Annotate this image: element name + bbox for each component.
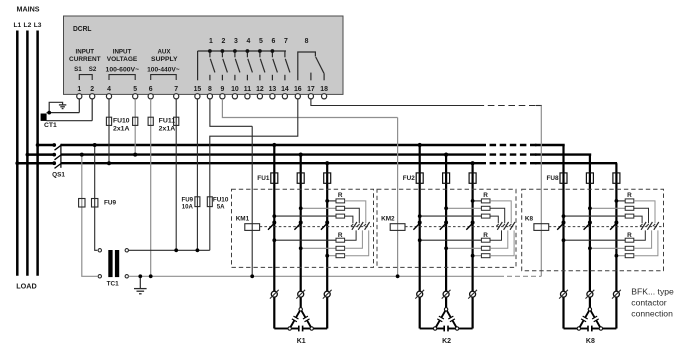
svg-text:16: 16 (294, 86, 302, 93)
svg-text:INPUT: INPUT (113, 48, 132, 55)
svg-text:L2: L2 (24, 22, 32, 29)
svg-text:R: R (627, 192, 632, 199)
svg-text:connection: connection (631, 308, 673, 318)
svg-text:K8: K8 (525, 216, 534, 223)
svg-text:14: 14 (281, 86, 289, 93)
svg-text:S2: S2 (89, 66, 97, 73)
svg-text:100-440V~: 100-440V~ (147, 67, 180, 74)
svg-text:8: 8 (208, 86, 212, 93)
svg-text:KM1: KM1 (236, 216, 250, 223)
svg-text:11: 11 (244, 86, 251, 93)
svg-text:1: 1 (77, 86, 81, 93)
svg-text:FU10: FU10 (113, 118, 130, 125)
svg-text:MAINS: MAINS (17, 4, 40, 13)
svg-text:contactor: contactor (631, 297, 666, 307)
svg-text:2x1A: 2x1A (159, 126, 176, 133)
svg-text:FU1: FU1 (257, 175, 270, 182)
svg-text:2: 2 (90, 86, 94, 93)
svg-text:R: R (338, 192, 343, 199)
svg-text:K8: K8 (586, 338, 595, 345)
svg-text:5: 5 (133, 86, 137, 93)
svg-text:BFK... type: BFK... type (631, 287, 674, 297)
svg-text:3: 3 (234, 38, 238, 45)
svg-text:S1: S1 (74, 66, 82, 73)
svg-text:K2: K2 (442, 338, 451, 345)
svg-text:INPUT: INPUT (76, 48, 95, 55)
svg-text:L3: L3 (34, 22, 42, 29)
svg-text:15: 15 (194, 86, 202, 93)
svg-text:6: 6 (271, 38, 275, 45)
svg-text:LOAD: LOAD (16, 281, 37, 290)
svg-text:100-600V~: 100-600V~ (106, 67, 140, 74)
svg-text:4: 4 (107, 86, 111, 93)
svg-text:FU9: FU9 (182, 196, 194, 203)
svg-text:K1: K1 (297, 338, 306, 345)
svg-text:6: 6 (149, 86, 153, 93)
svg-text:FU11: FU11 (159, 118, 176, 125)
svg-text:FU2: FU2 (403, 175, 416, 182)
svg-text:10A: 10A (182, 203, 194, 210)
svg-text:FU8: FU8 (547, 175, 560, 182)
svg-text:13: 13 (269, 86, 277, 93)
svg-text:17: 17 (307, 86, 315, 93)
svg-text:L1: L1 (13, 22, 21, 29)
svg-text:QS1: QS1 (52, 172, 65, 179)
svg-text:CT1: CT1 (44, 123, 58, 129)
svg-text:10: 10 (231, 86, 239, 93)
svg-text:7: 7 (284, 38, 288, 45)
svg-text:KM2: KM2 (381, 216, 395, 223)
svg-text:DCRL: DCRL (73, 24, 92, 33)
svg-text:SUPPLY: SUPPLY (151, 56, 178, 63)
svg-text:9: 9 (220, 86, 224, 93)
svg-text:R: R (483, 192, 488, 199)
svg-text:5A: 5A (217, 203, 225, 210)
svg-text:18: 18 (320, 86, 328, 93)
svg-text:8: 8 (305, 38, 309, 45)
svg-text:5: 5 (259, 38, 263, 45)
svg-text:2x1A: 2x1A (113, 126, 130, 133)
svg-text:FU10: FU10 (213, 196, 229, 203)
svg-text:AUX: AUX (157, 48, 171, 55)
svg-text:FU9: FU9 (104, 200, 117, 207)
svg-text:CURRENT: CURRENT (69, 56, 101, 63)
svg-text:VOLTAGE: VOLTAGE (107, 56, 138, 63)
svg-text:TC1: TC1 (107, 281, 120, 288)
svg-text:1: 1 (209, 38, 213, 45)
svg-text:4: 4 (246, 38, 250, 45)
svg-text:12: 12 (256, 86, 264, 93)
svg-text:7: 7 (174, 86, 178, 93)
svg-text:2: 2 (221, 38, 225, 45)
